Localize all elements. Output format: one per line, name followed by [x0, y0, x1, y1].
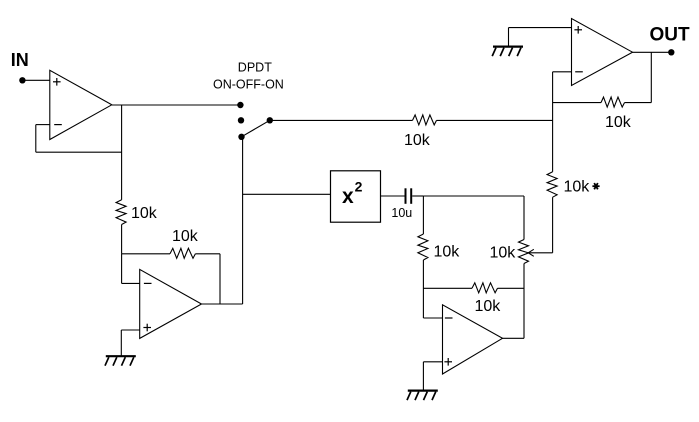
- svg-text:10k: 10k: [564, 179, 591, 196]
- switch S1 contact bottom: [238, 134, 244, 140]
- wire IN to U1 + input: [22, 79, 49, 81]
- wire feedback to R4: [625, 102, 652, 104]
- ground G1: [106, 355, 136, 357]
- svg-text:10k: 10k: [172, 228, 199, 245]
- block X1 squarer: [331, 171, 381, 222]
- node IN terminal: [19, 77, 25, 83]
- switch S1 contact middle: [238, 117, 244, 123]
- wire U1 feedback bottom: [36, 151, 122, 153]
- resistor R3 10k horizontal: [413, 115, 437, 125]
- wire R1 bottom to node: [121, 225, 123, 254]
- pot R6 wiper arrow: [528, 249, 534, 253]
- wire U3 + to ground: [508, 28, 510, 46]
- svg-text:IN: IN: [11, 50, 29, 70]
- wire R7 to output vertical: [498, 287, 525, 289]
- wire U4 + to ground: [422, 362, 424, 390]
- wire U1 output down branch: [121, 105, 123, 200]
- svg-text:10k: 10k: [434, 243, 461, 260]
- wire R3 to summing node: [437, 119, 553, 121]
- wire U2 output: [202, 303, 243, 305]
- wire corner down to U2 output: [219, 254, 221, 304]
- resistor R8 10k* vertical: [547, 172, 557, 197]
- ground G3: [408, 390, 438, 392]
- wire U2 + to ground: [120, 330, 122, 356]
- svg-text:x: x: [342, 185, 354, 208]
- svg-text:DPDT: DPDT: [238, 60, 272, 74]
- switch S1 contact top: [237, 102, 243, 108]
- resistor R5 10k vertical: [418, 234, 428, 260]
- svg-text:10k: 10k: [490, 245, 517, 262]
- wire node to R2: [122, 253, 170, 255]
- svg-text:OUT: OUT: [650, 25, 691, 46]
- svg-text:10k: 10k: [475, 298, 502, 315]
- svg-text:10k: 10k: [605, 114, 632, 131]
- wire U3 output to OUT: [633, 51, 672, 53]
- wire switch pole to R3: [270, 119, 413, 121]
- wire C1 to node A: [412, 195, 423, 197]
- svg-text:ON-OFF-ON: ON-OFF-ON: [213, 77, 284, 91]
- resistor R7 10k horizontal: [472, 283, 498, 293]
- wire node to X1 input: [243, 193, 331, 195]
- op-amp U2: [140, 269, 202, 338]
- wire R5 node to R7: [423, 287, 472, 289]
- wire pot bottom down: [523, 264, 525, 339]
- op-amp U3: [572, 19, 633, 86]
- capacitor C1 10u: [405, 188, 407, 204]
- wire node down to U2 - input: [121, 254, 123, 284]
- switch S1 lever: [242, 120, 270, 137]
- wire summing node vertical: [552, 72, 554, 172]
- op-amp U1: [50, 70, 112, 139]
- svg-text:10k: 10k: [404, 132, 431, 149]
- wire U4 + input: [423, 361, 442, 363]
- wire node A to pot top corner: [423, 195, 524, 197]
- wire U1 output to switch: [112, 104, 241, 106]
- potentiometer R6 10k: [519, 240, 529, 264]
- wire X1 output to C1: [381, 195, 405, 197]
- wire U2 - input: [122, 282, 140, 284]
- wire U4 output: [503, 337, 525, 339]
- resistor R1 10k vertical: [116, 200, 126, 225]
- resistor R4 10k horizontal: [601, 97, 625, 107]
- wire U3 feedback vertical: [650, 52, 652, 102]
- wire U2 + input: [121, 329, 139, 331]
- ground G2: [493, 45, 523, 47]
- node OUT terminal: [668, 49, 674, 55]
- wire U3 - input: [553, 71, 572, 73]
- wire wiper to 10k* bottom: [528, 252, 552, 254]
- wire switch bottom down: [242, 137, 244, 304]
- wire node A down to R5: [422, 196, 424, 234]
- resistor R2 10k horizontal: [170, 248, 195, 258]
- op-amp U4: [443, 305, 503, 374]
- wire U1 feedback left vertical: [35, 125, 37, 153]
- switch S1 pole: [267, 117, 273, 123]
- wire R4 to summing node: [553, 102, 601, 104]
- wire R2 to corner: [195, 253, 220, 255]
- label R8 star: [592, 185, 599, 187]
- wire corner down to pot R6: [523, 196, 525, 240]
- svg-text:10u: 10u: [391, 206, 412, 220]
- svg-text:10k: 10k: [131, 205, 158, 222]
- svg-text:2: 2: [355, 179, 363, 195]
- wire U3 + input: [509, 27, 572, 29]
- wire U1 - input: [36, 124, 50, 126]
- wire U4 - input: [423, 317, 442, 319]
- wire R5 bottom to U4 - node: [422, 260, 424, 318]
